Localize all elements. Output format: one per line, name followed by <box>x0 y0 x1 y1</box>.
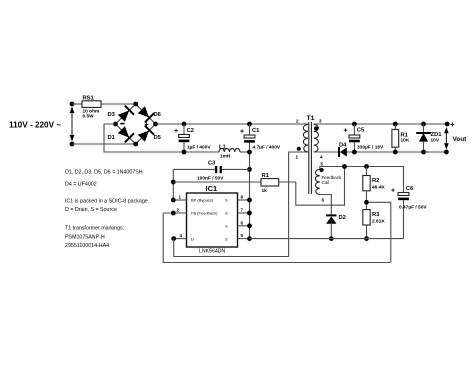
secondary winding <box>314 125 319 153</box>
svg-text:3: 3 <box>319 119 322 124</box>
input voltage double arrow <box>70 107 75 142</box>
svg-text:L1: L1 <box>219 145 227 151</box>
svg-text:D1, D2, D3, D5, D6 = 1N4007SH: D1, D2, D3, D5, D6 = 1N4007SH <box>65 170 143 176</box>
svg-text:100nF / 50V: 100nF / 50V <box>197 176 224 182</box>
svg-text:2.61K: 2.61K <box>372 219 385 225</box>
node C1 negative rail <box>247 150 252 155</box>
svg-text:ZD1: ZD1 <box>431 132 443 138</box>
feedback winding <box>315 169 319 194</box>
svg-text:T1 transformer markings:: T1 transformer markings: <box>65 226 124 232</box>
diode D1 <box>117 125 135 143</box>
resistor R2 <box>363 167 386 210</box>
svg-text:7: 7 <box>241 208 244 213</box>
svg-text:RS1: RS1 <box>83 96 95 102</box>
svg-text:1: 1 <box>296 155 299 160</box>
diode D5 <box>137 125 155 143</box>
diode D6 <box>137 105 155 123</box>
svg-text:10V: 10V <box>431 138 440 144</box>
svg-text:S: S <box>225 198 228 203</box>
svg-text:4: 4 <box>180 233 183 238</box>
svg-text:R2: R2 <box>372 178 379 184</box>
wire C3 left down to BP node <box>172 169 174 200</box>
svg-text:110V - 220V ~: 110V - 220V ~ <box>9 121 61 130</box>
drain wire pin4 down right and up to primary <box>174 152 308 257</box>
svg-text:+: + <box>391 188 395 195</box>
pin 1 stub <box>173 199 186 201</box>
zener ZD1 <box>416 122 442 155</box>
svg-text:C1: C1 <box>252 128 260 134</box>
svg-text:0.47µF / 50V: 0.47µF / 50V <box>399 205 427 211</box>
svg-text:+: + <box>240 129 244 136</box>
resistor R3 <box>363 210 386 239</box>
secondary bottom wire <box>314 151 339 153</box>
resistor R1 10K <box>392 122 410 155</box>
diode D3 <box>117 105 135 123</box>
node FB divider junction <box>364 200 369 205</box>
svg-text:R1: R1 <box>262 173 270 179</box>
pin 8 stub <box>238 199 250 201</box>
node bridge right <box>153 122 158 127</box>
Vout terminals <box>445 122 450 127</box>
svg-text:+: + <box>144 120 149 129</box>
source rail <box>250 238 404 240</box>
Vout double arrow <box>444 127 449 150</box>
node bridge left <box>113 122 118 127</box>
feedback phasing dot <box>320 168 324 172</box>
secondary phasing dot <box>314 126 318 130</box>
svg-text:4.7µF / 400V: 4.7µF / 400V <box>253 145 281 151</box>
svg-text:+: + <box>450 120 455 129</box>
feedback bottom wire to D2 <box>320 195 332 216</box>
svg-text:29551100014-HA4: 29551100014-HA4 <box>65 243 109 249</box>
svg-text:4: 4 <box>320 155 323 160</box>
primary winding <box>303 125 308 153</box>
svg-text:D4: D4 <box>339 142 347 148</box>
FB riser to divider junction <box>367 202 391 262</box>
IC1 <box>187 184 238 255</box>
svg-text:T1: T1 <box>307 115 315 122</box>
pin 4 stub <box>174 238 187 240</box>
capacitor C2 <box>174 122 211 155</box>
pin 6 stub <box>238 225 250 227</box>
node BP junction <box>171 180 176 185</box>
svg-text:S: S <box>225 211 228 216</box>
node R2 top <box>364 164 369 169</box>
secondary top rail to Vout <box>314 123 447 125</box>
wire L1 to C1 bottom <box>240 151 250 153</box>
node bridge top <box>133 102 138 107</box>
svg-text:1: 1 <box>179 195 182 200</box>
svg-text:C2: C2 <box>187 128 194 134</box>
svg-text:1µF / 400V: 1µF / 400V <box>187 145 211 151</box>
svg-text:FB (Feedback): FB (Feedback) <box>191 211 218 216</box>
svg-text:C6: C6 <box>406 186 414 192</box>
svg-text:1mH: 1mH <box>220 154 231 160</box>
svg-text:BP (Bypass): BP (Bypass) <box>191 198 214 203</box>
svg-text:D4 = UF4002: D4 = UF4002 <box>65 182 97 188</box>
svg-text:D2: D2 <box>339 215 346 221</box>
svg-text:2: 2 <box>177 208 180 213</box>
svg-text:S: S <box>225 224 228 229</box>
transformer T1 <box>296 115 343 203</box>
diode D2 <box>326 214 336 223</box>
svg-text:6: 6 <box>322 198 325 203</box>
svg-text:D6: D6 <box>154 112 162 118</box>
capacitor C3 <box>173 160 252 181</box>
wire R1 right elbow to feedback pin5 node <box>296 167 345 206</box>
svg-text:8: 8 <box>241 195 244 200</box>
svg-text:10K: 10K <box>401 138 410 144</box>
core <box>308 122 310 194</box>
positive rail bridge to primary <box>156 123 309 125</box>
wire input top to RS1 <box>72 103 82 105</box>
feedback top wire <box>320 167 404 193</box>
svg-text:D3: D3 <box>108 112 116 118</box>
pin 5 stub <box>238 238 250 240</box>
svg-text:D: D <box>191 236 194 241</box>
svg-text:1k: 1k <box>262 188 268 194</box>
pin 2 stub <box>163 212 186 214</box>
primary phasing dot <box>297 147 301 151</box>
node bridge bottom <box>133 142 138 147</box>
diode D4 <box>338 147 347 157</box>
wire RS1 to bridge top <box>101 103 136 105</box>
input terminal top <box>70 102 75 107</box>
resistor R1 1k <box>173 173 295 194</box>
bridge diamond wires <box>116 104 156 144</box>
svg-text:D1: D1 <box>108 135 116 141</box>
svg-text:IC1 is packed in a SOIC-8 pack: IC1 is packed in a SOIC-8 package. <box>65 199 149 205</box>
svg-text:D5: D5 <box>154 135 162 141</box>
capacitor C6 <box>391 186 427 239</box>
svg-text:D = Drain, S = Source: D = Drain, S = Source <box>65 207 117 213</box>
svg-text:+: + <box>174 128 178 135</box>
svg-text:46.4K: 46.4K <box>372 185 385 191</box>
svg-text:5: 5 <box>241 233 244 238</box>
resistor RS1 <box>82 96 101 120</box>
minus sign at bridge left <box>120 123 124 125</box>
svg-text:C3: C3 <box>208 160 216 166</box>
svg-text:6: 6 <box>241 220 244 225</box>
svg-text:2: 2 <box>296 119 299 124</box>
svg-text:330µF / 16V: 330µF / 16V <box>357 145 384 151</box>
svg-text:S: S <box>225 236 228 241</box>
svg-text:IC1: IC1 <box>206 184 218 193</box>
svg-text:PSM1075ANP-H: PSM1075ANP-H <box>65 235 105 241</box>
inductor L1 <box>219 145 240 160</box>
svg-text:5: 5 <box>321 162 324 167</box>
svg-text:R3: R3 <box>372 212 380 218</box>
svg-text:LNK564DN: LNK564DN <box>199 249 225 255</box>
svg-text:Coil: Coil <box>322 180 330 185</box>
capacitor C5 <box>344 122 385 155</box>
wire input bottom to bridge bottom <box>72 143 136 145</box>
wire bridge left to negative rail <box>104 124 219 152</box>
pin 7 stub <box>238 212 250 214</box>
input terminal bottom <box>70 142 75 147</box>
vertical C1 down to IC right rail <box>249 143 251 239</box>
svg-text:C5: C5 <box>357 128 365 134</box>
FB wire from pin2 down and right <box>163 213 391 263</box>
node pin5/R1 junction <box>342 164 347 169</box>
svg-text:0.5W: 0.5W <box>83 113 95 119</box>
capacitor C1 <box>240 122 281 151</box>
svg-text:+: + <box>344 128 348 135</box>
svg-text:Vout: Vout <box>453 136 468 143</box>
